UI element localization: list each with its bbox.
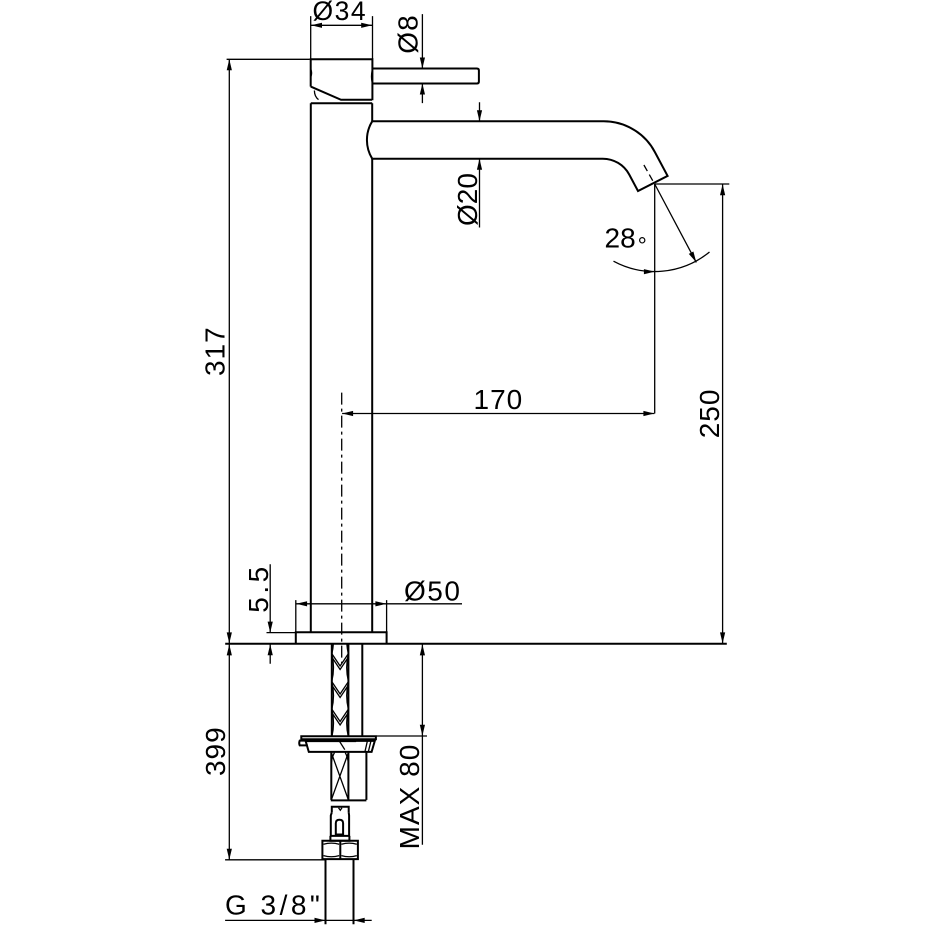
threaded rod upper (chevron thread) (332, 626, 349, 749)
dim Ø20 line (479, 102, 481, 227)
dim 399 bottom extension line (225, 859, 325, 861)
dim 399 arrows (227, 644, 232, 655)
angle vertical reference line (654, 184, 656, 414)
mounting surface line (225, 643, 727, 645)
angle slant line (655, 184, 697, 262)
angle arc (614, 252, 710, 272)
supply hose upper (361, 644, 363, 737)
svg-text:MAX 80: MAX 80 (394, 744, 425, 850)
spout (367, 121, 668, 191)
dim 317 top extension line (227, 58, 310, 60)
dim 5.5 line (269, 564, 271, 663)
supply hose lower (365, 753, 367, 800)
washer extension line (377, 735, 427, 737)
svg-text:5.5: 5.5 (243, 563, 274, 612)
svg-text:399: 399 (200, 726, 231, 776)
dim Ø34 arrows (311, 23, 322, 28)
spout tip centerline (644, 165, 655, 184)
valve body (331, 812, 349, 836)
dim Ø50 extension lines (296, 600, 387, 632)
angle slant arrow (689, 252, 697, 263)
dim 250 line (722, 184, 724, 643)
dim 250 arrows (720, 184, 725, 195)
svg-text:Ø8: Ø8 (393, 14, 424, 53)
hex nut (322, 841, 358, 859)
handle cap (311, 59, 373, 100)
valve fitting top band (332, 807, 349, 813)
washer cup (306, 741, 375, 752)
dim Ø8 line (421, 14, 423, 103)
dim 5.5 plate-top extension (267, 632, 296, 634)
dim Ø50 arrows (296, 601, 307, 606)
lever bar (372, 69, 479, 84)
dim 399 line (228, 644, 230, 859)
dim Ø50 line (296, 603, 462, 605)
valve neck band (330, 836, 349, 841)
dim 317 line (228, 59, 230, 643)
dim Ø34 line (311, 24, 372, 26)
dim 317 arrows (227, 59, 232, 70)
washer pull tab (299, 741, 308, 746)
svg-text:170: 170 (474, 384, 524, 415)
dim Ø8 arrows (420, 58, 425, 69)
dim Ø20 arrows (477, 110, 482, 121)
base plate (296, 632, 387, 644)
threaded rod lower (cross lattice) (331, 753, 367, 801)
angle arc arrow (644, 269, 655, 274)
svg-text:317: 317 (200, 326, 231, 376)
column centerline (341, 393, 343, 663)
washer top plate (301, 736, 376, 739)
dim MAX 80 line (421, 644, 423, 844)
dim 170 arrows (342, 411, 353, 416)
svg-text:250: 250 (694, 389, 725, 439)
dim 170 line (342, 413, 654, 415)
dim G 3/8 line (225, 919, 372, 921)
dim 5.5 arrows (268, 622, 273, 633)
supply tube (326, 859, 354, 924)
extension line tip to 250 dim (655, 183, 730, 185)
svg-text:G3/8": G3/8" (225, 890, 323, 921)
svg-text:Ø20: Ø20 (452, 173, 483, 226)
svg-text:Ø34: Ø34 (313, 0, 368, 26)
dim Ø34 extension lines (311, 16, 373, 59)
faucet column body (311, 103, 372, 632)
dim MAX 80 arrows (420, 644, 425, 655)
dim G 3/8 arrows (315, 918, 326, 923)
svg-text:Ø50: Ø50 (404, 576, 461, 607)
